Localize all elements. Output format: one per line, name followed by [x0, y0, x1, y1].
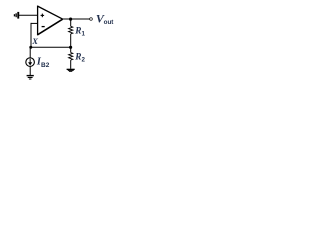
- ground (below IB2): [27, 75, 34, 80]
- node X junction dot: [29, 46, 32, 49]
- op-amp U1: [38, 6, 63, 35]
- wire: junction down to R2: [70, 47, 72, 52]
- ground (below R2): [67, 69, 75, 72]
- op-amp - marker: [42, 26, 45, 28]
- resistor R1: [69, 26, 73, 34]
- svg-text:out: out: [104, 19, 115, 26]
- wire: op-amp output: [62, 18, 90, 20]
- op-amp + marker: [41, 14, 45, 18]
- wire: R1 to junction: [70, 34, 72, 47]
- wire: output dot down to R1: [70, 19, 72, 26]
- current source IB2: [26, 58, 35, 67]
- wire: current source to ground: [29, 67, 31, 76]
- node: R1/R2 junction dot: [69, 46, 72, 49]
- terminal Vout (open circle): [90, 18, 93, 21]
- ground (sideways, at + input): [14, 12, 19, 19]
- wire: - input: [31, 22, 38, 24]
- background: [0, 0, 120, 89]
- svg-text:2: 2: [82, 57, 86, 64]
- svg-text:R: R: [74, 53, 81, 63]
- wire: crossbar X to R1/R2 junction: [31, 46, 71, 48]
- node: output junction dot: [69, 18, 72, 21]
- wire: feedback vertical to node X: [30, 23, 32, 47]
- svg-text:X: X: [31, 36, 38, 46]
- svg-text:1: 1: [82, 31, 86, 38]
- svg-text:R: R: [74, 27, 81, 37]
- wire: X down to current source: [29, 47, 31, 58]
- wire: R2 to ground: [70, 60, 72, 69]
- resistor R2: [69, 53, 73, 61]
- wire: ground to + input: [19, 14, 38, 16]
- svg-text:B2: B2: [41, 62, 50, 69]
